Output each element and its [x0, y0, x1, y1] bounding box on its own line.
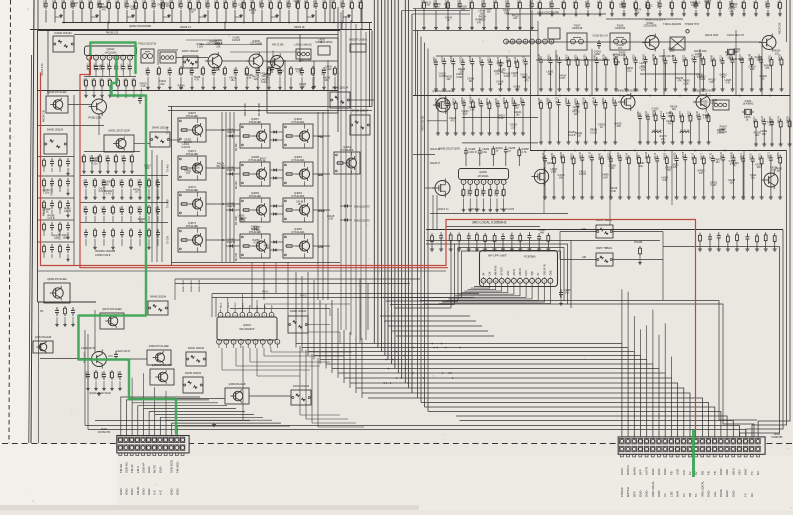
value label [672, 164, 679, 170]
svg-text:C4136 35v CH: C4136 35v CH [592, 36, 607, 38]
svg-text:C4119 100u CH: C4119 100u CH [727, 34, 744, 37]
svg-text:C4150: C4150 [87, 63, 89, 70]
wire bundle to J4002 pin 12 [362, 393, 690, 437]
diode D4065 1SS270 [226, 167, 240, 175]
value label [445, 76, 453, 82]
value label [184, 170, 192, 176]
svg-text:RX: RX [756, 471, 760, 475]
svg-text:47K: 47K [673, 166, 678, 169]
diode cluster D4039 1SS184 [44, 129, 67, 154]
svg-text:R4280: R4280 [779, 54, 781, 61]
svg-text:R4205 22u: R4205 22u [197, 0, 199, 8]
capacitor C4184 [270, 50, 275, 73]
transistor cell Q4073 DTA114EK [178, 221, 206, 252]
wire [382, 298, 462, 309]
svg-text:D4066 1SS184: D4066 1SS184 [290, 310, 307, 313]
svg-text:DTA114EK: DTA114EK [186, 152, 199, 156]
wire bus line 8 [397, 0, 399, 373]
value label [755, 163, 763, 169]
paper white left margin [0, 0, 33, 511]
svg-text:FOOSC784: FOOSC784 [98, 431, 111, 434]
svg-text:GND: GND [550, 270, 552, 275]
capacitor C4295 [501, 233, 505, 251]
svg-text:NARU: NARU [632, 467, 636, 475]
svg-text:R4113: R4113 [754, 116, 756, 123]
resistor R4109 [515, 56, 519, 91]
wire bundle to J4002 pin 11 [356, 388, 684, 437]
svg-text:C4151 33u CH: C4151 33u CH [423, 115, 425, 131]
pin label FM-RL [136, 486, 140, 495]
wire [424, 43, 426, 408]
value label [439, 73, 447, 79]
wire [38, 105, 104, 136]
value label [724, 79, 731, 85]
resistor R4188 [574, 0, 578, 16]
svg-text:C4202 0.022: C4202 0.022 [52, 182, 54, 196]
svg-text:C4193: C4193 [721, 151, 723, 158]
resistor R4121 [759, 153, 763, 200]
capacitor C4221 [108, 351, 130, 360]
svg-text:R4159: R4159 [487, 97, 489, 104]
capacitor C4275 [683, 151, 687, 199]
value label [710, 99, 718, 105]
capacitor C4116 [50, 200, 54, 214]
pin label NB-9 [731, 468, 735, 475]
junction [559, 95, 561, 97]
capacitor C4271 [156, 206, 160, 222]
wire bundle to J4002 pin 18 [456, 416, 727, 437]
capacitor C4226 [122, 155, 126, 174]
svg-text:22u: 22u [661, 138, 666, 141]
svg-text:C4215: C4215 [766, 1, 768, 8]
transistor cell Q4079 DTC114EK [100, 308, 124, 329]
svg-text:470: 470 [667, 169, 672, 172]
svg-text:R4157: R4157 [538, 1, 540, 8]
capacitor C4154 [190, 67, 194, 89]
value label [719, 128, 727, 134]
value label [43, 189, 51, 195]
value label [637, 162, 645, 168]
svg-text:C4182: C4182 [674, 152, 676, 159]
svg-text:3.3K: 3.3K [463, 112, 468, 115]
svg-text:6.8u: 6.8u [435, 6, 440, 9]
svg-text:C4228: C4228 [673, 54, 675, 61]
svg-text:22u: 22u [627, 70, 632, 73]
svg-text:R4188: R4188 [574, 1, 576, 8]
resistor R4205 [718, 0, 722, 16]
capacitor C4296 [462, 97, 466, 136]
pin label NB [250, 304, 252, 308]
value label [253, 226, 261, 232]
capacitor C4199 [212, 67, 216, 89]
resistor R4134 [614, 53, 618, 91]
wire to J4001 pin 11 [177, 426, 290, 435]
pin label 9V [682, 493, 686, 497]
svg-text:D4045 1SS181: D4045 1SS181 [185, 372, 202, 375]
svg-text:R4194: R4194 [646, 151, 648, 158]
label L4020 [437, 209, 449, 211]
svg-text:0.047: 0.047 [711, 184, 718, 187]
label R4201 [300, 60, 312, 62]
svg-text:C4293: C4293 [482, 189, 484, 196]
capacitor C4110 [152, 0, 156, 23]
svg-text:R4122: R4122 [93, 179, 95, 186]
resistor R4159 [584, 54, 588, 91]
pin label LSB [669, 491, 673, 497]
svg-text:C4212: C4212 [741, 152, 743, 159]
capacitor C4220 [50, 244, 54, 258]
pin label SB-9 [242, 302, 244, 308]
value label [178, 84, 186, 90]
wire [646, 326, 648, 360]
value label [138, 218, 146, 224]
wire [621, 289, 623, 343]
svg-text:TX: TX [750, 471, 754, 475]
svg-text:GND: GND [141, 489, 145, 495]
svg-text:R4231: R4231 [769, 54, 771, 61]
wire green highlighted net segment 1 [90, 43, 135, 74]
resistor R4152 [124, 78, 128, 98]
capacitor C4166 [464, 147, 477, 166]
value label [44, 208, 52, 214]
diode bridge D4038 1SS184 [53, 32, 74, 52]
svg-text:22K: 22K [160, 83, 165, 86]
resistor R4108 [251, 0, 254, 23]
capacitor C4283 [278, 67, 282, 89]
resistor R4213 [53, 0, 63, 23]
svg-text:C4106: C4106 [580, 151, 582, 158]
pin 2 of AF-LPF unit [542, 277, 547, 283]
resistor R4179 [488, 188, 492, 212]
resistor R4166 [507, 55, 511, 91]
resistor R4248 [130, 154, 134, 173]
svg-text:9V: 9V [40, 309, 43, 313]
wire bundle to J4002 pin 14 [368, 398, 702, 437]
svg-text:C4283: C4283 [168, 68, 170, 75]
wire [433, 195, 437, 230]
value label [749, 65, 757, 71]
value label [696, 73, 704, 79]
value label [523, 77, 531, 83]
pin of Q4001 bottom 7 [260, 339, 265, 348]
capacitor C4260 [643, 53, 647, 91]
pin 3 of Q4042 [100, 55, 105, 64]
svg-text:18u: 18u [298, 203, 303, 206]
svg-text:47K: 47K [477, 21, 482, 24]
svg-text:R4174: R4174 [779, 116, 781, 123]
svg-text:22K: 22K [513, 17, 518, 20]
value label [498, 114, 506, 120]
svg-text:GND: GND [147, 489, 151, 495]
value label [213, 67, 221, 73]
svg-text:R4102: R4102 [110, 371, 112, 378]
net label AM [582, 255, 587, 259]
svg-text:47K: 47K [677, 80, 682, 83]
svg-text:220: 220 [54, 237, 59, 240]
svg-text:R4228: R4228 [787, 115, 789, 122]
svg-text:R4229: R4229 [311, 68, 313, 75]
pin label FM-SG [119, 463, 123, 473]
value label [264, 245, 272, 251]
svg-text:33u CH: 33u CH [184, 141, 192, 144]
pin 3 of Q4006 [475, 180, 480, 188]
value label [572, 106, 579, 112]
svg-text:AF OUT: AF OUT [501, 266, 504, 275]
svg-text:C4160 47K: C4160 47K [341, 0, 343, 8]
wire [154, 387, 156, 414]
capacitor C4239 [633, 54, 637, 91]
value label [754, 131, 762, 137]
svg-text:4.7K: 4.7K [730, 163, 735, 166]
value label [92, 160, 100, 166]
svg-text:0.047: 0.047 [560, 77, 567, 80]
wire [296, 272, 356, 393]
svg-text:47K: 47K [102, 8, 107, 11]
resistor R4180 [224, 0, 227, 23]
wire [84, 151, 140, 153]
svg-text:C4245: C4245 [731, 152, 733, 159]
wire [38, 0, 362, 30]
wire [243, 348, 300, 380]
svg-text:R4217: R4217 [94, 371, 96, 378]
svg-text:C4237: C4237 [434, 56, 436, 63]
svg-text:R4179: R4179 [147, 206, 149, 213]
svg-text:C4220: C4220 [479, 97, 481, 104]
resistor R4127 [422, 0, 426, 30]
svg-text:C4103: C4103 [740, 54, 742, 61]
svg-text:C4265: C4265 [575, 98, 577, 105]
svg-text:SSB: SSB [318, 209, 325, 213]
svg-text:0.01 B: 0.01 B [48, 217, 55, 220]
pin of Q4001 top 7 [262, 309, 267, 317]
svg-text:RX-AM: RX-AM [235, 182, 238, 189]
svg-text:GND: GND [645, 491, 649, 497]
pin 7 of Q4006 [501, 180, 506, 188]
value label [710, 182, 718, 188]
svg-text:1K: 1K [445, 106, 448, 109]
svg-text:0.047: 0.047 [695, 56, 702, 59]
label T4019 [663, 23, 682, 26]
value label [690, 2, 698, 8]
value label [260, 72, 267, 78]
pin 9 of AF-LPF unit [499, 277, 504, 283]
svg-text:0.01 B: 0.01 B [64, 210, 71, 213]
wire to J4001 pin 6 [149, 412, 245, 436]
pin label FM-AF [130, 464, 134, 473]
pin label FM-9 [228, 302, 230, 308]
wire bundle to J4002 pin 1 [296, 344, 622, 438]
crystal X4003 16.43MHZ [742, 101, 754, 115]
diode cluster D4044 1SS184 [186, 347, 206, 366]
svg-text:Q4003 2SK2109GR: Q4003 2SK2109GR [432, 90, 454, 93]
svg-text:4.7K: 4.7K [725, 82, 730, 85]
svg-text:L4013 18u: L4013 18u [680, 130, 691, 132]
svg-text:Q4006: Q4006 [479, 171, 487, 174]
wire [337, 7, 339, 132]
svg-text:GND: GND [657, 491, 661, 497]
unit border dashed horizontal [2, 443, 793, 445]
wire [47, 31, 49, 96]
value label [614, 122, 622, 128]
resistor R4161 [62, 0, 65, 23]
wire routing channel [462, 251, 561, 298]
wire [222, 362, 330, 370]
resistor R4111 [688, 110, 692, 144]
wire [318, 60, 328, 300]
value label [626, 67, 634, 73]
pin 12 of AF-LPF unit [481, 277, 486, 283]
svg-text:0.022: 0.022 [261, 81, 268, 84]
wire [206, 129, 240, 131]
pin label FAST [525, 269, 528, 275]
svg-text:100K: 100K [683, 82, 689, 85]
svg-text:C4226: C4226 [122, 155, 124, 162]
resistor R4299 [562, 0, 566, 16]
value label [568, 131, 576, 137]
svg-text:C4273: C4273 [769, 152, 771, 159]
svg-text:1K: 1K [600, 126, 603, 129]
resistor R4146 [750, 53, 754, 91]
svg-text:R4209: R4209 [603, 97, 605, 104]
svg-text:2ND LOCAL: 2ND LOCAL [651, 481, 655, 497]
resistor R4128 [546, 233, 550, 251]
svg-text:C4296: C4296 [462, 97, 464, 104]
wire bus elbow [412, 13, 470, 15]
svg-text:22u: 22u [751, 176, 756, 179]
value label [645, 5, 653, 11]
svg-text:0.01 B: 0.01 B [717, 132, 724, 135]
svg-text:GND: GND [663, 469, 667, 475]
pin of Q4001 bottom 6 [253, 339, 258, 348]
value label [594, 50, 602, 56]
capacitor C4172 [711, 152, 715, 199]
svg-text:33u CH: 33u CH [161, 5, 169, 8]
pin label AM AF IN [495, 265, 498, 275]
inductor L4013 [680, 130, 691, 133]
wire routing channel [455, 244, 568, 305]
svg-text:22u: 22u [266, 76, 271, 79]
transistor cell Q4061 DTC114EK [334, 145, 360, 174]
svg-text:D4034 (2.5MHz): D4034 (2.5MHz) [316, 42, 333, 44]
svg-text:R4277: R4277 [702, 152, 704, 159]
svg-text:0.01 B: 0.01 B [590, 131, 597, 134]
svg-text:SB-9: SB-9 [242, 302, 244, 308]
wire [84, 76, 136, 78]
resistor R4257 [634, 0, 638, 16]
value label [496, 81, 504, 87]
svg-text:FM-SG: FM-SG [119, 463, 123, 473]
diode bridge D4033 [330, 87, 350, 108]
resistor R4202 [492, 146, 503, 166]
svg-text:SQL: SQL [532, 270, 534, 275]
svg-text:100: 100 [515, 106, 520, 109]
pin 4 of Q4042 [107, 55, 112, 64]
svg-text:C4245: C4245 [121, 63, 123, 70]
svg-text:6.8u: 6.8u [482, 151, 487, 154]
svg-text:3.3K: 3.3K [662, 179, 667, 182]
svg-text:10K: 10K [105, 183, 110, 186]
pin label GND [657, 469, 661, 475]
svg-text:C4129: C4129 [86, 371, 88, 378]
wire bundle to J4002 pin 9 [344, 378, 671, 437]
value label [670, 105, 678, 111]
capacitor C4238 [537, 233, 541, 251]
svg-text:R4289: R4289 [778, 152, 780, 159]
svg-text:C4188 0.022 B: C4188 0.022 B [95, 255, 111, 257]
resistor R4262 [653, 109, 657, 144]
pin label TB [713, 471, 717, 475]
svg-text:1K: 1K [746, 119, 749, 122]
sheet border solid vertical inner [29, 55, 32, 443]
svg-text:100: 100 [610, 167, 615, 170]
value label [750, 174, 757, 180]
label C4115 [659, 56, 676, 58]
svg-text:330: 330 [577, 135, 582, 138]
capacitor C4203 [71, 0, 75, 23]
svg-text:330: 330 [498, 65, 503, 68]
transistor cell Q4070 DTA114EK [178, 111, 206, 142]
connector J4001 FOOSC784 [117, 436, 189, 456]
ground [212, 423, 216, 427]
svg-text:Q4052 DTC1144EK: Q4052 DTC1144EK [152, 365, 173, 367]
svg-text:DTA114EK: DTA114EK [249, 194, 262, 198]
wire AF pin fanout [461, 283, 508, 292]
junction [649, 95, 651, 97]
svg-text:R4164 470: R4164 470 [80, 0, 82, 8]
svg-text:C4113: C4113 [661, 110, 663, 117]
svg-text:R4240: R4240 [600, 152, 602, 159]
svg-text:330: 330 [251, 11, 256, 14]
value label [660, 135, 668, 141]
value label [325, 65, 332, 71]
svg-text:C4283: C4283 [548, 54, 550, 61]
pin of Q4001 top 1 [218, 309, 223, 317]
wire to J4001 pin 10 [172, 423, 281, 435]
svg-text:C4260 47: C4260 47 [206, 0, 208, 8]
resistor R4155 [43, 200, 46, 214]
wire AF pin fanout [442, 283, 544, 302]
svg-text:10K: 10K [139, 221, 144, 224]
wire bus line 6 [391, 0, 393, 364]
pin of Q4001 bottom 2 [224, 339, 229, 348]
resistor R4281 [518, 233, 522, 252]
svg-text:R4166: R4166 [507, 55, 509, 62]
capacitor C4244 [71, 307, 75, 326]
capacitor C4221 [482, 0, 486, 30]
wire rail y150 [530, 150, 787, 152]
net label RX-FM [236, 144, 238, 151]
resistor R4143 [170, 0, 173, 23]
label TP4003 [685, 23, 700, 26]
svg-text:R4249 100K: R4249 100K [199, 279, 201, 292]
svg-text:R4150 470: R4150 470 [84, 352, 86, 363]
svg-text:C4267: C4267 [128, 63, 130, 70]
svg-text:FM-S: FM-S [300, 294, 306, 297]
value label [424, 2, 432, 8]
svg-text:2.2K: 2.2K [499, 117, 504, 120]
value label [714, 158, 721, 164]
svg-text:2.2K: 2.2K [711, 102, 716, 105]
resistor R4164 [80, 0, 83, 23]
svg-text:0.01 B: 0.01 B [579, 173, 586, 176]
capacitor C4106 [646, 110, 650, 144]
capacitor C4228 [622, 0, 626, 16]
svg-text:PCB7866: PCB7866 [524, 255, 536, 259]
svg-text:1SS270: 1SS270 [227, 206, 236, 208]
pin of Q4001 top 3 [233, 309, 238, 317]
capacitor C4222 [609, 153, 613, 200]
resistor R4237 [566, 54, 570, 92]
